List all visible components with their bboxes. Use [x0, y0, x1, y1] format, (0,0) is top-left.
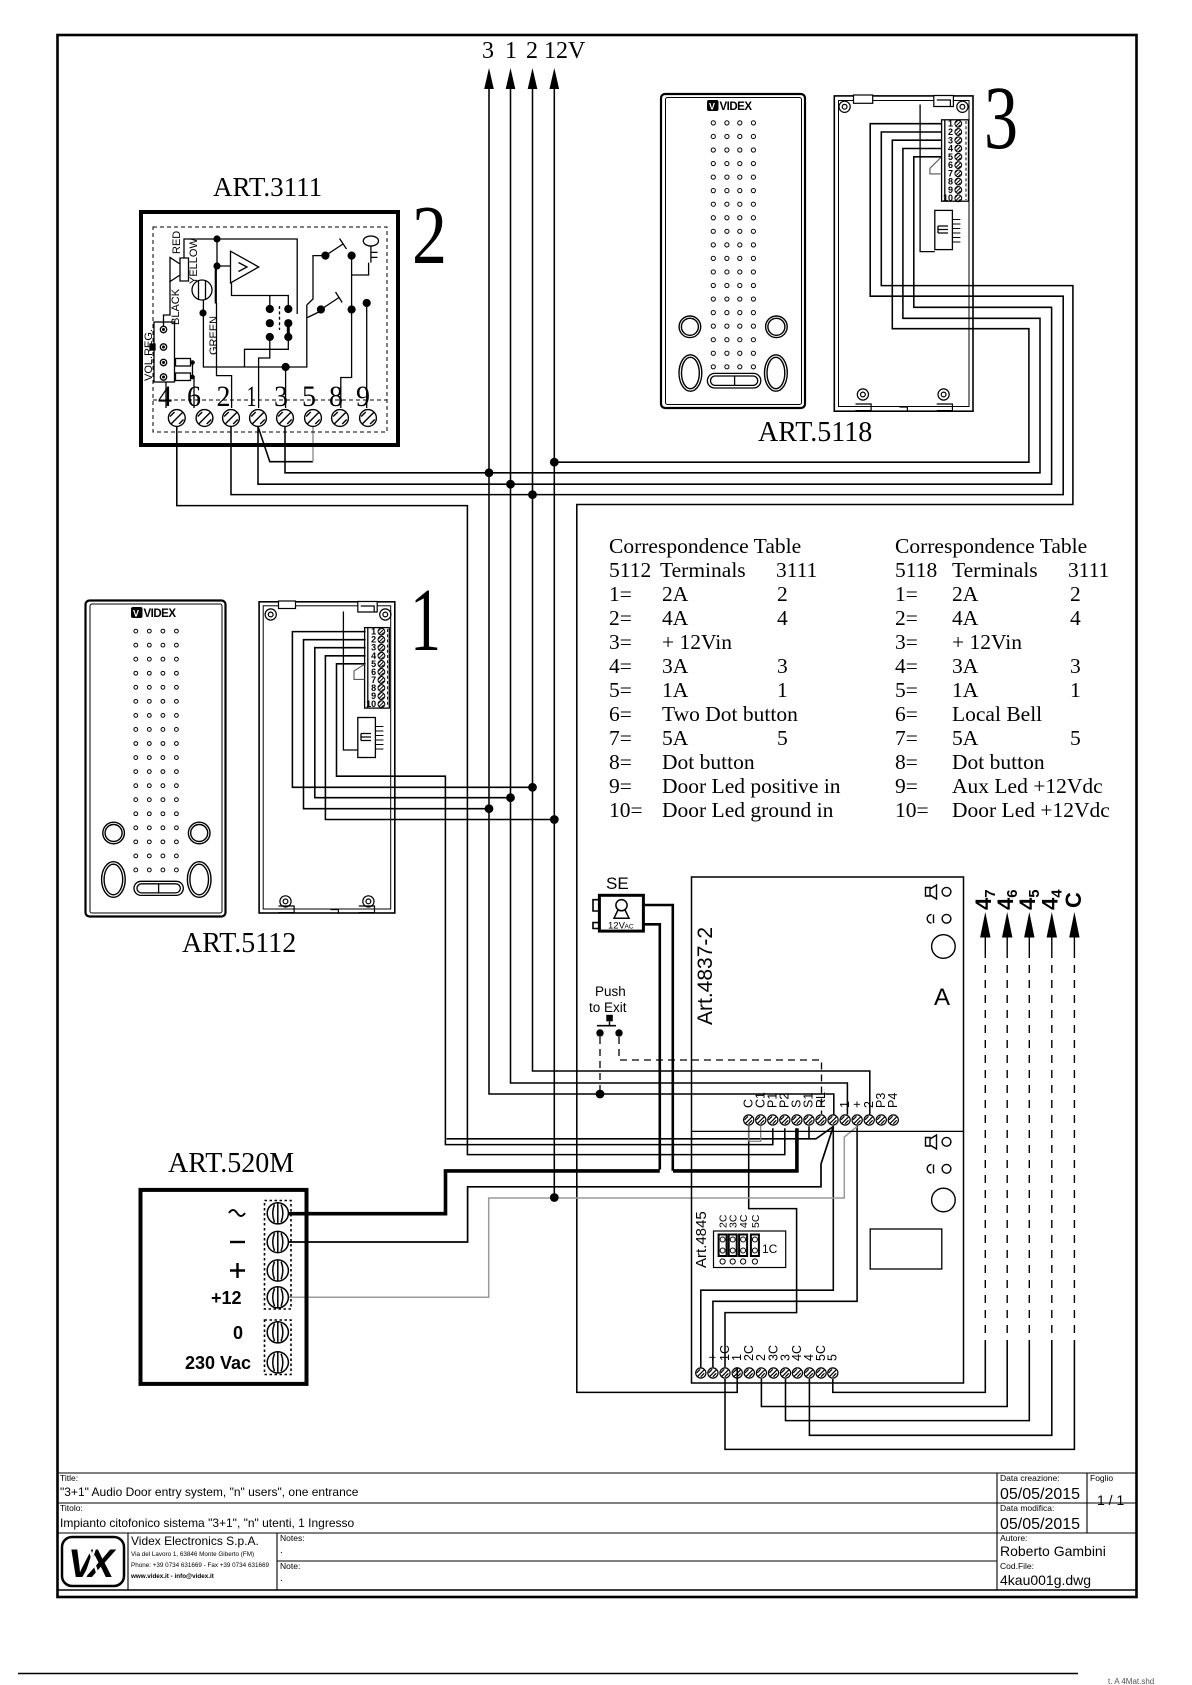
svg-text:P4: P4 [886, 1093, 900, 1108]
svg-text:V: V [133, 609, 139, 619]
wire 5112 terminal2 to bus3 [304, 640, 490, 809]
label ~ [229, 1210, 245, 1216]
svg-text:10: 10 [366, 699, 376, 709]
wire 5112 terminal4 to bus12V [325, 656, 554, 820]
jumper labels 2C 3C 4C 5C (rotated) [718, 1214, 762, 1228]
oval button B3 on 5112 [102, 862, 126, 898]
mic icon lower [927, 1164, 951, 1173]
wire 3111 terminal3 / bus3 / 5118 terminal4 [285, 149, 1040, 473]
svg-text:2A: 2A [952, 582, 979, 606]
wire lower terminal 1C to arrow C [725, 1340, 1074, 1449]
svg-text:C: C [1061, 892, 1086, 908]
svg-text:2: 2 [412, 189, 447, 282]
svg-text:+12: +12 [211, 1288, 242, 1308]
svg-text:3: 3 [1070, 654, 1081, 678]
wire bus 3 arrowhead [484, 68, 494, 89]
wire bus 1 arrowhead [506, 68, 516, 89]
svg-text:3: 3 [482, 38, 494, 64]
terminal screw 4 [168, 410, 185, 427]
oval button B3 on 5118 [679, 355, 702, 391]
svg-text:2: 2 [526, 38, 538, 64]
svg-text:1=: 1= [895, 582, 918, 606]
svg-text:Impianto citofonico sistema "3: Impianto citofonico sistema "3+1", "n" u… [60, 1516, 355, 1530]
connector J1 on 5118 PCB [935, 210, 961, 249]
svg-text:Notes:: Notes: [280, 1533, 305, 1543]
dashed inner outline [153, 227, 387, 432]
PCB 5112 outline [259, 602, 395, 913]
svg-text:1: 1 [505, 38, 517, 64]
svg-text:1: 1 [247, 380, 257, 413]
wire VOL.REG top [164, 281, 171, 327]
logo VIDEX on 5118 [707, 100, 752, 113]
svg-text:Dot button: Dot button [952, 750, 1045, 774]
wire S1 link to minus screw [447, 1126, 834, 1139]
svg-text:Terminals: Terminals [660, 558, 746, 582]
svg-text:BLACK: BLACK [170, 288, 182, 325]
label minus [230, 1241, 245, 1243]
upper terminal screws [744, 1115, 899, 1125]
svg-text:ART.5112: ART.5112 [182, 928, 296, 959]
wire bus 2 arrowhead [528, 68, 538, 89]
speaker icon upper [926, 885, 951, 899]
wire C-C1 jumper hook [749, 1126, 761, 1141]
svg-text:Data modifica:: Data modifica: [1000, 1503, 1054, 1513]
svg-text:1A: 1A [952, 678, 979, 702]
svg-text:5: 5 [302, 380, 316, 413]
wire 3111 terminal5 stub (gray) [312, 427, 314, 462]
svg-text:1C: 1C [762, 1242, 778, 1256]
wire upper minus to lower minus [701, 1126, 834, 1367]
svg-text:V: V [709, 102, 715, 112]
op-amp A1 triangle [231, 251, 259, 283]
wire amp lower bar to relay [232, 283, 289, 305]
mounting screw top-right [957, 101, 968, 112]
svg-text:4A: 4A [952, 606, 979, 630]
wire SE top contact [644, 905, 673, 1171]
svg-text:4=: 4= [609, 654, 632, 678]
svg-text:2: 2 [777, 582, 788, 606]
svg-text:4C: 4C [738, 1214, 750, 1228]
svg-text:1A: 1A [662, 678, 689, 702]
resistor R2 [176, 373, 191, 381]
svg-text:12V: 12V [544, 38, 586, 64]
key symbol [363, 236, 378, 246]
wire bus 1 (vertical, to terminal 1 of 4837-2) [511, 86, 848, 1115]
svg-text:VIDEX: VIDEX [144, 608, 177, 620]
trimmer circle upper [932, 935, 956, 959]
wire 5112 terminal1 to bus2 [292, 632, 532, 788]
PCB 5118 outline [834, 96, 973, 411]
svg-text:Door Led +12Vdc: Door Led +12Vdc [952, 798, 1110, 822]
svg-text:2A: 2A [662, 582, 689, 606]
terminal screw 8 [332, 410, 349, 427]
svg-text:Data creazione:: Data creazione: [1000, 1473, 1060, 1483]
wire lower terminal 3 to arrow 45 [786, 1340, 1030, 1421]
wire 5112 terminal5 to P1 of 4837-2 [337, 664, 773, 1145]
potentiometer VOL.REG block [154, 322, 175, 382]
svg-text:10: 10 [943, 193, 953, 203]
svg-text:2=: 2= [609, 606, 632, 630]
node junction dots [485, 468, 494, 477]
mic icon upper [927, 914, 951, 923]
terminal row numbers and screws 1-10 [943, 119, 953, 204]
wire 3111 terminal4 to P2 of 4837-2 [177, 427, 785, 1155]
svg-text:12V: 12V [608, 921, 626, 932]
svg-text:3=: 3= [895, 630, 918, 654]
svg-text:Dot button: Dot button [662, 750, 755, 774]
svg-text:1: 1 [777, 678, 788, 702]
lone contact dot [363, 299, 371, 307]
wire terminal 3 up [285, 367, 287, 408]
wire lower terminal 5 to arrow 47 [833, 1340, 986, 1392]
button B2 on 5118 [766, 316, 788, 338]
svg-text:1=: 1= [609, 582, 632, 606]
svg-text:9=: 9= [609, 774, 632, 798]
svg-text:5112: 5112 [609, 558, 651, 582]
pointer flag on terminal 6 [930, 158, 941, 174]
box Art.4837-2 [692, 877, 964, 1383]
bottom tabs [856, 404, 953, 411]
wire lower terminal 4 to arrow 44 [809, 1340, 1051, 1435]
svg-text:GREEN: GREEN [208, 316, 220, 355]
jumper 3C [729, 1235, 737, 1265]
svg-text:+ 12Vin: + 12Vin [952, 630, 1022, 654]
svg-text:Art.4845: Art.4845 [693, 1211, 710, 1268]
svg-text:3: 3 [777, 654, 788, 678]
terminal screw 9 [360, 410, 377, 427]
upper terminal labels (rotated) [742, 1092, 901, 1108]
svg-text:Door Led ground in: Door Led ground in [662, 798, 834, 822]
svg-text:Roberto Gambini: Roberto Gambini [1000, 1543, 1106, 1559]
arrow 45 [1015, 889, 1043, 1340]
pointer flag on terminal 6 [354, 664, 365, 679]
svg-text:Local Bell: Local Bell [952, 702, 1042, 726]
title block grid [58, 1472, 1137, 1474]
terminal screw 2 [223, 410, 240, 427]
arrow 46 [993, 889, 1021, 1340]
svg-text:Note:: Note: [280, 1561, 300, 1571]
terminal block 5118 [942, 120, 969, 201]
svg-text:Aux Led +12Vdc: Aux Led +12Vdc [952, 774, 1103, 798]
svg-text:9=: 9= [895, 774, 918, 798]
jumper 2C [719, 1235, 727, 1265]
wire push-to-exit left contact dashed [599, 1037, 601, 1094]
svg-text:Terminals: Terminals [952, 558, 1038, 582]
svg-text:Door Led positive in: Door Led positive in [662, 774, 841, 798]
svg-text:10=: 10= [895, 798, 929, 822]
svg-text:3: 3 [274, 380, 288, 413]
Videx logo VX [62, 1537, 124, 1586]
relay K1 contact dots [266, 305, 274, 313]
svg-text:5C: 5C [750, 1214, 762, 1228]
amplifier box ART.3111 outline [141, 212, 398, 445]
wire relay to link [245, 340, 289, 367]
svg-text:Title:: Title: [60, 1473, 78, 1483]
svg-text:230 Vac: 230 Vac [185, 1353, 251, 1373]
terminal screw 5 [305, 410, 322, 427]
svg-text:1 / 1: 1 / 1 [1097, 1492, 1124, 1508]
svg-text:05/05/2015: 05/05/2015 [1000, 1486, 1080, 1503]
wire terminal 6 up [193, 363, 195, 409]
wire terminal 2 to capacitor [217, 303, 232, 408]
logo VIDEX on 5112 [131, 607, 176, 620]
arrow 44 [1038, 889, 1066, 1340]
svg-text:+ 12Vin: + 12Vin [662, 630, 732, 654]
svg-text:Cod.File:: Cod.File: [1000, 1561, 1034, 1571]
PSU terminal screws [267, 1203, 288, 1373]
arrow C [1061, 892, 1086, 1340]
wire 3111 terminal1 to terminal5 link [258, 427, 313, 462]
bottom tabs [279, 906, 375, 913]
arrow 47 [971, 889, 999, 1340]
svg-text:3: 3 [984, 69, 1018, 168]
speaker hole grid 5118 [711, 121, 755, 369]
table 5118 correspondence [895, 534, 1110, 822]
wire top tab to connector [343, 612, 357, 751]
svg-text:ART.3111: ART.3111 [213, 172, 322, 202]
lower terminal screws [696, 1368, 838, 1378]
wire mic bottom / green wire across [203, 300, 306, 367]
terminal row numbers and screws 1-10 [366, 627, 376, 710]
svg-text:Correspondence Table: Correspondence Table [895, 534, 1087, 558]
svg-text:Push: Push [595, 984, 626, 999]
svg-text:Phone: +39 0734 631669 - Fax +: Phone: +39 0734 631669 - Fax +39 0734 63… [131, 1562, 269, 1569]
svg-text:Videx Electronics S.p.A.: Videx Electronics S.p.A. [131, 1534, 259, 1548]
lower terminal labels (rotated) [694, 1345, 840, 1361]
wire 5112 terminal3 to bus1 [315, 648, 511, 798]
switch SW1 contact dots [321, 252, 329, 260]
svg-text:1: 1 [410, 571, 441, 670]
switch SW1 [325, 239, 346, 256]
button B2 on 5112 [188, 822, 210, 844]
wire top tab to connector [920, 105, 935, 252]
svg-text:Two Dot button: Two Dot button [662, 702, 798, 726]
svg-text:7=: 7= [609, 726, 632, 750]
wire switch SW1 contacts [307, 256, 369, 310]
wire upper C to lower 1C [725, 1126, 797, 1367]
mounting screw bottom-right [938, 389, 949, 400]
svg-text:4=: 4= [895, 654, 918, 678]
wire SE bottom contact [644, 924, 660, 1169]
dotted terminal group upper [265, 1201, 292, 1310]
wire PSU minus to 4837-2 minus [289, 1127, 833, 1243]
bottom rule line [18, 1673, 1078, 1675]
svg-text:Titolo:: Titolo: [60, 1503, 83, 1513]
switch SW2 [308, 292, 343, 318]
junction dots inside 3111 [213, 235, 220, 242]
button B1 on 5118 [679, 316, 701, 338]
push button SW [597, 1025, 616, 1027]
wire +12 bus to 5118 terminal3 [554, 140, 1029, 462]
wire dot contact to terminal 9 [366, 305, 368, 408]
terminal screw 6 [196, 410, 213, 427]
svg-text:3=: 3= [609, 630, 632, 654]
svg-text:3A: 3A [662, 654, 689, 678]
svg-text:8=: 8= [895, 750, 918, 774]
wire upper plus to lower plus [713, 1126, 857, 1367]
svg-text:"3+1" Audio Door entry system,: "3+1" Audio Door entry system, "n" users… [60, 1485, 359, 1499]
wire relay to terminal 1 [259, 340, 270, 408]
svg-text:.: . [280, 1545, 283, 1556]
svg-text:5A: 5A [952, 726, 979, 750]
svg-text:SE: SE [606, 874, 629, 893]
label plus [230, 1263, 245, 1278]
top tab left [854, 95, 873, 103]
svg-text:5=: 5= [895, 678, 918, 702]
svg-text:10=: 10= [609, 798, 643, 822]
wire 3111 terminal2 / bus2 / 5118 terminal1 [231, 124, 1063, 495]
dashed divider above terminals [153, 399, 387, 401]
wire PSU +12 (gray) to 4837-2 plus [289, 1127, 857, 1298]
svg-text:Autore:: Autore: [1000, 1533, 1027, 1543]
connector J1 on 5112 PCB [358, 718, 384, 758]
svg-text:Correspondence Table: Correspondence Table [609, 534, 801, 558]
divider line [692, 1130, 964, 1132]
mounting screw bottom-right [363, 896, 374, 907]
svg-text:4kau001g.dwg: 4kau001g.dwg [1000, 1572, 1091, 1588]
terminal block 5112 [365, 628, 390, 709]
svg-text:to Exit: to Exit [589, 1000, 627, 1015]
keyhole symbol [616, 900, 627, 911]
svg-text:4: 4 [777, 606, 788, 630]
panel 5118 body [661, 94, 805, 408]
svg-text:5A: 5A [662, 726, 689, 750]
trimmer circle lower [932, 1188, 956, 1212]
svg-text:6=: 6= [609, 702, 632, 726]
terminal screw 1 [250, 410, 267, 427]
svg-text:4: 4 [158, 380, 172, 413]
panel 5112 body [86, 601, 226, 917]
resistor R1 [176, 359, 191, 367]
speaker slot on 5112 [134, 881, 183, 895]
pot wiper dots [162, 328, 165, 331]
top tab right [934, 96, 954, 107]
svg-text:5: 5 [826, 1354, 840, 1361]
oval button B4 on 5112 [187, 862, 211, 898]
svg-text:4A: 4A [662, 606, 689, 630]
speaker slot on 5118 [707, 373, 760, 388]
svg-text:6: 6 [187, 380, 201, 413]
jumper 5C [751, 1235, 759, 1265]
svg-text:9: 9 [356, 380, 370, 413]
svg-text:3111: 3111 [1068, 558, 1109, 582]
table 5112 correspondence [609, 534, 841, 822]
jumper 4C [739, 1235, 747, 1265]
svg-text:3A: 3A [952, 654, 979, 678]
wire bus 12V arrowhead [550, 68, 560, 89]
svg-text:6=: 6= [895, 702, 918, 726]
jumper block Art.4845 [714, 1231, 786, 1268]
svg-text:8: 8 [329, 380, 343, 413]
svg-text:2: 2 [1070, 582, 1081, 606]
dotted terminal group lower [265, 1320, 292, 1375]
mounting screw top-right [380, 609, 391, 620]
svg-text:www.videx.it - info@videx.it: www.videx.it - info@videx.it [130, 1573, 215, 1580]
terminal screw 3 [277, 410, 294, 427]
speaker LS1 [170, 258, 189, 282]
svg-text:0: 0 [233, 1323, 243, 1343]
wire terminal 4 up [165, 382, 167, 408]
mounting screw top-left [839, 101, 850, 112]
svg-text:7=: 7= [895, 726, 918, 750]
wire bus 3 (vertical, to minus terminal of 4837-2) [489, 86, 834, 1115]
wire amp input node [217, 239, 231, 266]
svg-text:ART.520M: ART.520M [168, 1148, 294, 1179]
oval button B4 on 5118 [765, 355, 788, 391]
switch SW2 contact dots [317, 305, 325, 313]
svg-text:t. A 4Mat.shd: t. A 4Mat.shd [1108, 1677, 1154, 1685]
relay K1 actuator [279, 306, 281, 330]
wire speaker top to relay [184, 239, 297, 314]
svg-text:A: A [934, 984, 950, 1011]
svg-text:5=: 5= [609, 678, 632, 702]
svg-text:Foglio: Foglio [1090, 1473, 1113, 1483]
top tab left [279, 601, 296, 609]
wire bus 2 (vertical, to terminal 2 of 4837-2) [533, 86, 870, 1115]
wire 5118 terminal2 to bottom strip terminal 1 [577, 132, 1073, 1392]
svg-text:5: 5 [777, 726, 788, 750]
mounting screw top-left [265, 609, 276, 620]
speaker icon lower [926, 1135, 951, 1149]
top tab right [358, 602, 377, 613]
svg-text:3111: 3111 [776, 558, 817, 582]
button B1 on 5112 [103, 822, 125, 844]
mounting screw bottom-left [280, 896, 291, 907]
svg-text:05/05/2015: 05/05/2015 [1000, 1516, 1080, 1533]
wire lower terminal 2 to arrow 46 [761, 1340, 1007, 1407]
wire push-to-exit right contact dashed to RL [619, 1037, 822, 1114]
wire bus 12V (vertical, ends on +12 gray wire) [553, 86, 555, 1198]
svg-text:2=: 2= [895, 606, 918, 630]
svg-text:Via del Lavoro 1, 63846 Monte: Via del Lavoro 1, 63846 Monte Giberto (F… [131, 1551, 254, 1558]
mounting screw bottom-left [857, 389, 868, 400]
svg-text:ART.5118: ART.5118 [758, 417, 872, 448]
svg-text:.: . [280, 1573, 283, 1584]
lock release SE box [599, 895, 643, 931]
svg-text:8=: 8= [609, 750, 632, 774]
op-amp gain mark [239, 263, 248, 272]
svg-text:VIDEX: VIDEX [720, 101, 753, 113]
svg-text:VOL.REG.: VOL.REG. [143, 329, 155, 381]
microphone M1 [192, 280, 212, 300]
capacitor bar at mic [215, 266, 217, 304]
svg-text:4: 4 [1070, 606, 1081, 630]
svg-text:YELLOW: YELLOW [188, 238, 200, 284]
speaker hole grid 5112 [134, 629, 178, 872]
wire 3111 terminal1 / bus1 / 5118 terminal5 [258, 157, 1052, 484]
svg-text:5118: 5118 [895, 558, 937, 582]
wire switch SW2 to terminal 8 [341, 312, 352, 408]
svg-text:1: 1 [1070, 678, 1081, 702]
svg-text:Art.4837-2: Art.4837-2 [694, 927, 717, 1025]
relay block rectangle [870, 1229, 942, 1269]
svg-text:RED: RED [171, 231, 183, 254]
wire PSU AC(~) to SE and S terminal (thick) [289, 1128, 797, 1213]
power supply box ART.520M [141, 1190, 307, 1384]
svg-text:5: 5 [1070, 726, 1081, 750]
svg-text:AC: AC [625, 924, 634, 931]
svg-text:2: 2 [217, 380, 231, 413]
